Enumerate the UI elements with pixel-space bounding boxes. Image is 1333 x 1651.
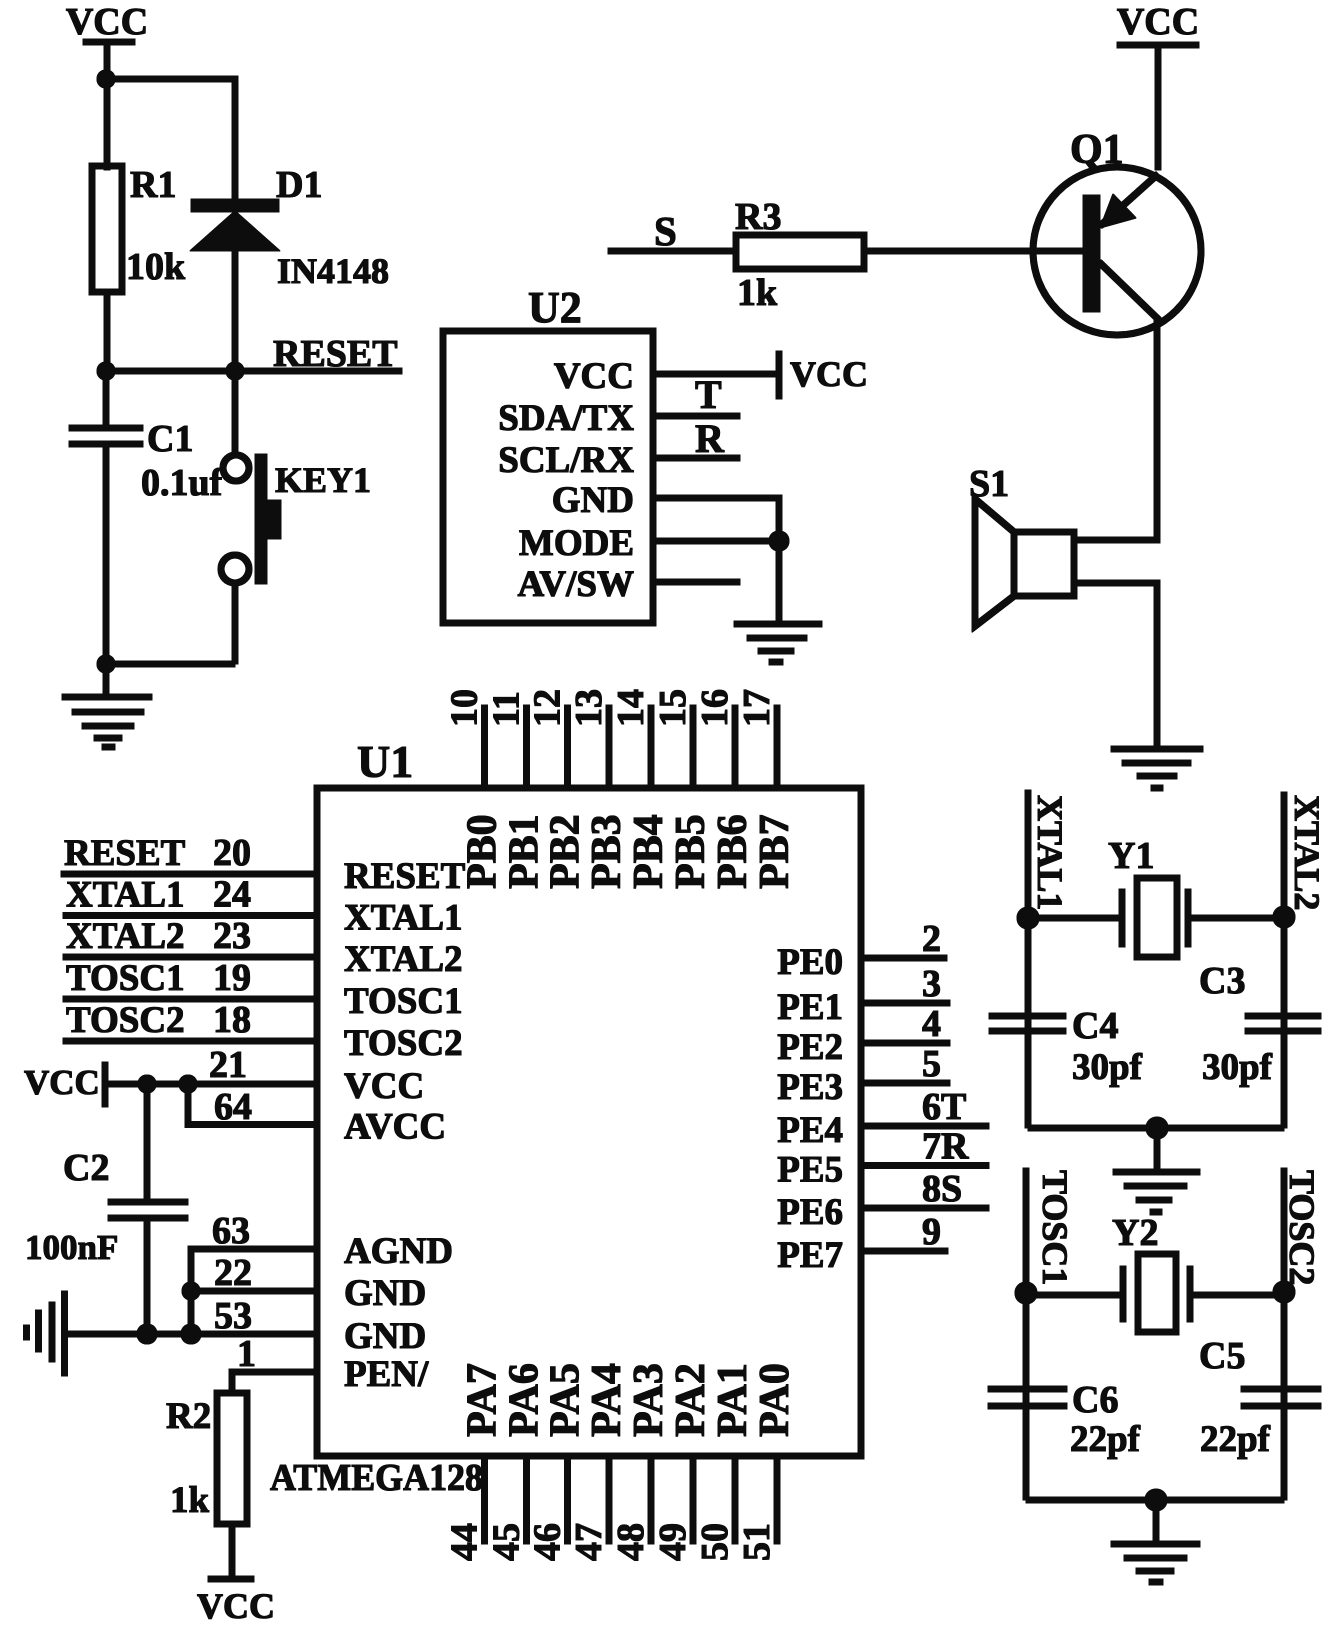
svg-text:VCC: VCC <box>790 354 868 394</box>
svg-text:C1: C1 <box>147 418 193 460</box>
svg-text:PE1: PE1 <box>777 987 843 1028</box>
wire U1 pin 48 (PA3) <box>648 1456 654 1544</box>
svg-text:PE5: PE5 <box>777 1150 843 1191</box>
wire U1 pin 45 (PA6) <box>524 1456 530 1544</box>
wire U2 MODE pin <box>653 531 789 551</box>
svg-text:3: 3 <box>922 963 941 1005</box>
svg-text:6T: 6T <box>922 1086 966 1128</box>
wire pin 53 GND rail <box>66 1295 317 1344</box>
wire U2 GND pin <box>653 498 779 541</box>
svg-text:TOSC1: TOSC1 <box>1035 1170 1075 1285</box>
wire C1 to ground rail <box>103 444 109 664</box>
node R (SCL/RX) <box>653 416 740 461</box>
svg-text:AVCC: AVCC <box>344 1107 446 1148</box>
wire U1 pin 47 (PA4) <box>606 1456 612 1544</box>
wire U2 VCC pin <box>653 371 777 377</box>
svg-text:9: 9 <box>922 1211 941 1253</box>
node XTAL1 (pin 24) <box>63 874 317 916</box>
ground (U2) <box>734 624 822 662</box>
svg-text:XTAL2: XTAL2 <box>344 939 463 980</box>
svg-text:VCC: VCC <box>344 1066 424 1107</box>
resistor R3 1k <box>735 196 864 314</box>
svg-text:C3: C3 <box>1199 960 1245 1002</box>
wire Y2 ground rail <box>1026 1489 1284 1541</box>
wire U1 pin 44 (PA7) <box>482 1456 488 1544</box>
svg-text:22pf: 22pf <box>1070 1419 1141 1460</box>
svg-text:PE4: PE4 <box>777 1110 843 1151</box>
svg-text:U1: U1 <box>357 736 413 787</box>
U1 left pin labels <box>344 856 466 1395</box>
wire pin 21 VCC <box>105 1044 317 1093</box>
wire XTAL1 to Y1 <box>1017 907 1122 929</box>
ground (U1 left) <box>27 1291 65 1376</box>
wire U1 pin 16 (PB6) <box>732 705 738 788</box>
svg-text:VCC: VCC <box>1117 1 1199 43</box>
svg-text:TOSC1: TOSC1 <box>66 958 185 999</box>
wire pin 64 AVCC <box>188 1084 317 1128</box>
svg-text:18: 18 <box>213 999 251 1041</box>
svg-text:XTAL1: XTAL1 <box>66 875 185 916</box>
wire MODE junction to ground <box>776 541 782 621</box>
power VCC (top-left) <box>66 1 148 43</box>
svg-text:PB3: PB3 <box>584 814 630 889</box>
wire U1 pin 17 (PB7) <box>774 705 780 788</box>
svg-text:R3: R3 <box>735 196 781 238</box>
svg-text:PE0: PE0 <box>777 942 843 983</box>
transistor Q1 <box>1033 127 1201 335</box>
svg-text:16: 16 <box>694 689 736 727</box>
svg-text:22: 22 <box>214 1252 252 1294</box>
svg-text:17: 17 <box>736 689 778 727</box>
node TOSC1 stub <box>1026 1168 1075 1500</box>
svg-text:GND: GND <box>344 1316 426 1357</box>
wire U1 pin 15 (PB5) <box>690 705 696 788</box>
node pin 2 (PE) <box>861 918 947 960</box>
svg-text:Y1: Y1 <box>1108 835 1154 877</box>
svg-text:T: T <box>695 372 722 417</box>
ground (Y1) <box>1113 1172 1200 1212</box>
svg-text:XTAL2: XTAL2 <box>66 916 185 957</box>
wire speaker to ground <box>1074 583 1157 746</box>
svg-text:R: R <box>695 416 725 461</box>
svg-text:IN4148: IN4148 <box>277 251 389 291</box>
svg-text:MODE: MODE <box>519 523 634 564</box>
svg-text:R2: R2 <box>166 1396 211 1437</box>
node TOSC2 (pin 18) <box>63 999 317 1041</box>
svg-text:10k: 10k <box>126 246 186 288</box>
node pin 5 (PE) <box>861 1043 950 1085</box>
wire ground rail <box>97 655 235 673</box>
svg-text:48: 48 <box>610 1523 652 1561</box>
wire TOSC1 to Y2 <box>1015 1282 1123 1304</box>
svg-text:GND: GND <box>552 480 634 521</box>
svg-text:PE3: PE3 <box>777 1067 843 1108</box>
wire U1 pin 51 (PA0) <box>774 1456 780 1544</box>
svg-text:22pf: 22pf <box>1200 1419 1271 1460</box>
node T (SDA/TX) <box>653 372 740 417</box>
capacitor C3 30pf <box>1199 960 1321 1088</box>
svg-text:PB1: PB1 <box>502 814 548 889</box>
node XTAL2 stub <box>1284 792 1327 1128</box>
svg-text:53: 53 <box>214 1295 252 1337</box>
svg-text:0.1uf: 0.1uf <box>141 462 224 504</box>
svg-text:44: 44 <box>444 1523 486 1561</box>
wire U1 pin 11 (PB1) <box>524 705 530 788</box>
svg-text:R1: R1 <box>130 164 176 206</box>
svg-text:VCC: VCC <box>197 1586 275 1626</box>
diode D1 IN4148 <box>190 164 389 291</box>
capacitor C4 30pf <box>989 1005 1143 1088</box>
wire U2 AV/SW pin <box>653 579 740 585</box>
svg-text:S: S <box>654 208 677 254</box>
svg-text:PA2: PA2 <box>668 1363 714 1437</box>
svg-text:5: 5 <box>922 1043 941 1085</box>
ground (speaker) <box>1111 749 1203 788</box>
wire Y2 to TOSC2 <box>1190 1281 1295 1303</box>
capacitor C2 100nF <box>25 1084 188 1334</box>
svg-text:PE7: PE7 <box>777 1235 843 1276</box>
svg-text:20: 20 <box>213 832 251 874</box>
svg-text:15: 15 <box>652 689 694 727</box>
svg-text:PB6: PB6 <box>710 814 756 889</box>
capacitor C5 22pf <box>1199 1335 1321 1460</box>
svg-text:SCL/RX: SCL/RX <box>498 440 634 481</box>
svg-text:XTAL1: XTAL1 <box>1030 795 1070 910</box>
svg-text:GND: GND <box>344 1273 426 1314</box>
svg-text:AV/SW: AV/SW <box>517 564 634 605</box>
svg-text:D1: D1 <box>276 164 322 206</box>
svg-text:PB7: PB7 <box>752 814 798 889</box>
svg-text:11: 11 <box>486 691 528 727</box>
wire R1 to RESET <box>104 292 110 371</box>
svg-text:C2: C2 <box>63 1147 109 1189</box>
svg-text:PA4: PA4 <box>584 1363 630 1437</box>
svg-text:PB2: PB2 <box>543 814 589 889</box>
wire U1 pin 13 (PB3) <box>606 705 612 788</box>
svg-text:21: 21 <box>209 1044 247 1086</box>
wire R3 to Q1 base <box>864 248 1084 254</box>
wire R2 to VCC <box>229 1524 235 1579</box>
svg-text:PA7: PA7 <box>460 1363 506 1437</box>
svg-text:SDA/TX: SDA/TX <box>498 398 634 439</box>
node pin 9 (PE) <box>861 1211 948 1253</box>
svg-text:Y2: Y2 <box>1112 1212 1158 1254</box>
svg-text:PB5: PB5 <box>668 814 714 889</box>
svg-text:30pf: 30pf <box>1072 1047 1143 1088</box>
wire pin 22 GND <box>182 1252 317 1300</box>
svg-text:24: 24 <box>213 874 251 916</box>
svg-text:PB0: PB0 <box>460 814 506 889</box>
node XTAL1 stub <box>1028 790 1070 1128</box>
svg-text:TOSC1: TOSC1 <box>344 981 463 1022</box>
wire U1 pin 14 (PB4) <box>648 705 654 788</box>
wire to ground <box>103 664 109 694</box>
node pin 4 (PE) <box>861 1003 950 1045</box>
svg-text:PA0: PA0 <box>752 1363 798 1437</box>
svg-text:50: 50 <box>694 1523 736 1561</box>
svg-text:KEY1: KEY1 <box>275 460 371 500</box>
wire Y1 to XTAL2 <box>1188 906 1295 928</box>
svg-text:2: 2 <box>922 918 941 960</box>
crystal Y2 <box>1112 1212 1190 1332</box>
svg-text:8S: 8S <box>922 1168 962 1210</box>
wire U1 pin 10 (PB0) <box>482 705 488 788</box>
power VCC (U2) <box>779 351 868 399</box>
resistor R1 <box>92 164 186 292</box>
svg-text:VCC: VCC <box>66 1 148 43</box>
wire U1 pin 50 (PA1) <box>732 1456 738 1544</box>
svg-text:VCC: VCC <box>24 1063 100 1102</box>
svg-text:23: 23 <box>213 915 251 957</box>
svg-text:1: 1 <box>237 1333 256 1375</box>
wire pin 63 AGND <box>191 1210 317 1334</box>
node pin 7R (PE) <box>861 1126 989 1168</box>
wire pin 1 PEN <box>232 1333 317 1394</box>
node pin 3 (PE) <box>861 963 950 1005</box>
svg-text:14: 14 <box>610 689 652 727</box>
crystal Y1 <box>1108 835 1188 957</box>
wire U1 pin 46 (PA5) <box>565 1456 571 1544</box>
resistor R2 1k <box>166 1393 247 1524</box>
node TOSC2 stub <box>1282 1168 1322 1500</box>
svg-text:PEN/: PEN/ <box>344 1354 429 1395</box>
capacitor C6 22pf <box>988 1379 1141 1460</box>
svg-text:TOSC2: TOSC2 <box>1282 1170 1322 1285</box>
svg-text:1k: 1k <box>170 1480 210 1521</box>
wire U1 pin 49 (PA2) <box>690 1456 696 1544</box>
IC U1 ATMEGA128 <box>270 736 861 1499</box>
svg-text:U2: U2 <box>528 283 582 332</box>
node RESET net <box>97 333 402 380</box>
capacitor C1 0.1uf <box>69 371 224 504</box>
wire KEY1 to ground rail <box>232 583 238 664</box>
node XTAL2 (pin 23) <box>63 915 317 957</box>
svg-text:19: 19 <box>213 957 251 999</box>
svg-text:XTAL1: XTAL1 <box>344 898 463 939</box>
svg-text:7R: 7R <box>922 1126 969 1168</box>
svg-text:ATMEGA128: ATMEGA128 <box>270 1457 483 1499</box>
svg-text:10: 10 <box>444 689 486 727</box>
svg-text:47: 47 <box>568 1523 610 1561</box>
svg-text:PA1: PA1 <box>710 1363 756 1437</box>
svg-text:13: 13 <box>568 689 610 727</box>
ground (Y2) <box>1111 1544 1200 1582</box>
node pin 6T (PE) <box>861 1086 989 1128</box>
power VCC (R2) <box>197 1579 275 1626</box>
svg-text:AGND: AGND <box>344 1231 453 1272</box>
svg-text:PE6: PE6 <box>777 1192 843 1233</box>
svg-text:63: 63 <box>212 1210 250 1252</box>
svg-text:49: 49 <box>652 1523 694 1561</box>
svg-text:VCC: VCC <box>554 356 634 397</box>
svg-text:TOSC2: TOSC2 <box>344 1023 463 1064</box>
wire U1 pin 12 (PB2) <box>565 705 571 788</box>
speaker S1 <box>969 463 1074 626</box>
node junction VCC/R1/D1 <box>97 70 115 88</box>
svg-text:1k: 1k <box>737 272 778 314</box>
svg-text:PB4: PB4 <box>626 814 672 889</box>
svg-text:45: 45 <box>486 1523 528 1561</box>
power VCC (U1 supply) <box>24 1062 105 1107</box>
svg-text:XTAL2: XTAL2 <box>1287 795 1327 910</box>
svg-text:TOSC2: TOSC2 <box>66 1000 185 1041</box>
svg-text:C6: C6 <box>1072 1379 1118 1421</box>
wire junction to diode branch <box>106 79 235 205</box>
svg-text:RESET: RESET <box>64 833 186 874</box>
svg-text:51: 51 <box>736 1523 778 1561</box>
svg-text:C5: C5 <box>1199 1335 1245 1377</box>
svg-text:PA6: PA6 <box>502 1363 548 1437</box>
svg-text:C4: C4 <box>1072 1005 1118 1047</box>
svg-text:30pf: 30pf <box>1202 1047 1273 1088</box>
svg-text:4: 4 <box>922 1003 941 1045</box>
node S <box>608 208 736 254</box>
ground (reset circuit) <box>62 697 152 747</box>
svg-text:12: 12 <box>527 689 569 727</box>
switch KEY1 <box>221 371 371 584</box>
svg-text:PE2: PE2 <box>777 1027 843 1068</box>
power VCC (Q1) <box>1117 1 1199 45</box>
svg-text:PA5: PA5 <box>543 1363 589 1437</box>
wire Q1 emitter to speaker <box>1074 320 1157 540</box>
wire VCC to R1 <box>104 42 110 170</box>
node TOSC1 (pin 19) <box>63 957 317 999</box>
wire D1 anode to RESET <box>232 251 238 371</box>
node pin 8S (PE) <box>861 1168 989 1210</box>
svg-text:PA3: PA3 <box>626 1363 672 1437</box>
U1 right pin labels <box>777 942 843 1276</box>
node RESET (pin 20) <box>61 832 317 874</box>
svg-text:100nF: 100nF <box>25 1228 118 1267</box>
wire VCC to Q1 <box>1155 45 1161 170</box>
wire Y1 ground rail <box>1028 1117 1284 1169</box>
IC U2 <box>443 283 653 623</box>
svg-text:46: 46 <box>527 1523 569 1561</box>
svg-text:RESET: RESET <box>344 856 466 897</box>
